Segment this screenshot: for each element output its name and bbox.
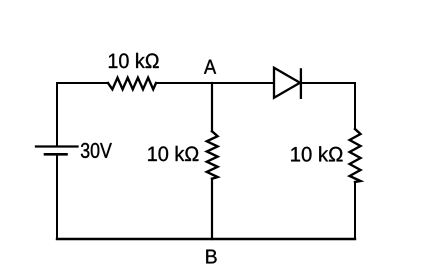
label 10 kOhm top <box>109 53 159 68</box>
resistor R2 10k middle vertical zigzag <box>207 131 218 178</box>
wire diode to top-right corner <box>301 82 355 84</box>
wire middle vertical upper (node A down) <box>211 83 213 131</box>
battery V1 short plate <box>45 153 67 156</box>
diode D1 triangle <box>274 68 300 98</box>
node A label <box>204 60 216 74</box>
battery value 30V <box>81 143 112 158</box>
battery V1 long plate <box>36 145 78 147</box>
wire top middle (R1 to node A to diode) <box>156 82 274 84</box>
label 10 kOhm right <box>291 146 342 161</box>
wire left vertical lower <box>56 154 58 239</box>
node B label <box>206 250 216 264</box>
resistor R1 10k horizontal zigzag <box>108 78 156 90</box>
wire right vertical lower <box>354 182 356 239</box>
label 10 kOhm middle <box>148 146 198 161</box>
wire bottom horizontal <box>57 238 355 240</box>
resistor R3 10k right vertical zigzag <box>350 129 361 182</box>
wire middle vertical lower (to node B) <box>211 179 213 239</box>
wire top-left horizontal <box>57 82 108 84</box>
diode D1 cathode bar <box>300 69 302 97</box>
wire left vertical upper <box>56 83 58 147</box>
wire right vertical upper <box>354 83 356 129</box>
